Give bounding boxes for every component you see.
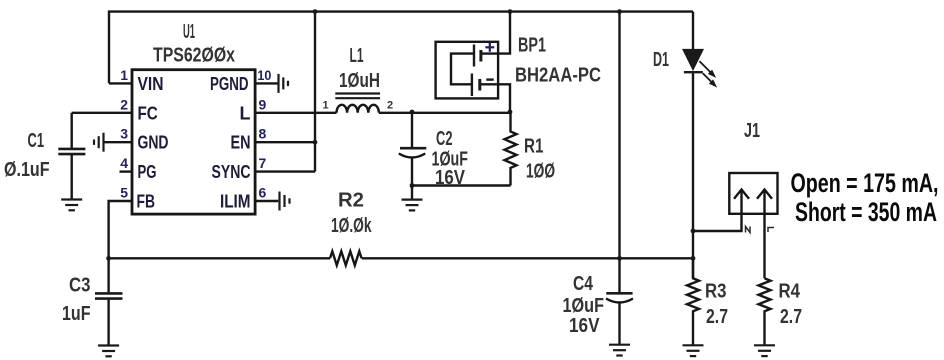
capacitor C3 <box>107 258 109 292</box>
node battery minus / R1 <box>508 110 513 115</box>
svg-text:2: 2 <box>120 96 128 112</box>
svg-text:J1: J1 <box>744 120 760 142</box>
wire C4 riser <box>618 12 620 259</box>
svg-text:C3: C3 <box>69 275 91 297</box>
ground sideways at pin 3 <box>94 133 104 152</box>
resistor R2 <box>330 251 362 265</box>
ground sideways at pin 10 <box>279 74 289 93</box>
svg-text:Short = 350 mA: Short = 350 mA <box>795 197 937 227</box>
J1 arrow pin 2 <box>763 190 765 279</box>
node rail-EN riser <box>313 9 318 14</box>
op-amp U1 body TPS6200x <box>132 70 255 214</box>
wire top rail VIN <box>109 12 693 84</box>
capacitor C1 <box>70 113 72 148</box>
pin 8 EN wire <box>255 141 315 143</box>
svg-text:1: 1 <box>323 100 329 112</box>
svg-text:BH2AA-PC: BH2AA-PC <box>515 65 601 87</box>
svg-text:U1: U1 <box>183 21 195 43</box>
svg-text:L1: L1 <box>350 45 364 67</box>
svg-text:6: 6 <box>259 185 267 201</box>
svg-text:4: 4 <box>120 155 128 171</box>
ground sideways at pin 6 <box>280 192 290 211</box>
wire bottom net right part <box>362 257 693 259</box>
svg-text:2.7: 2.7 <box>780 306 802 328</box>
svg-text:1uF: 1uF <box>62 303 91 325</box>
pin 2 FC <box>72 112 132 114</box>
svg-text:ILIM: ILIM <box>220 191 251 211</box>
pin 9 L wire <box>255 112 336 114</box>
svg-text:PGND: PGND <box>210 74 249 94</box>
node C2 bottom <box>410 183 415 188</box>
node FB-C3 <box>106 256 111 261</box>
svg-text:Open = 175 mA,: Open = 175 mA, <box>791 168 939 198</box>
battery cell 2 <box>471 74 473 97</box>
svg-text:3: 3 <box>120 126 128 142</box>
pin 4 PG stub <box>120 170 133 172</box>
J1 arrow pin 1 <box>740 190 742 214</box>
node R3 top <box>691 256 696 261</box>
battery BP1 box <box>436 42 499 99</box>
svg-text:VIN: VIN <box>138 74 164 94</box>
wire EN/SYNC riser <box>314 12 316 172</box>
svg-text:C1: C1 <box>28 130 45 152</box>
svg-text:10: 10 <box>257 67 271 83</box>
wire battery plus to rail <box>481 12 510 54</box>
wire battery minus down <box>480 84 510 113</box>
svg-text:R3: R3 <box>705 281 727 303</box>
node rail-C4 riser <box>617 9 622 14</box>
svg-text:PG: PG <box>138 162 157 182</box>
svg-text:D1: D1 <box>653 49 669 71</box>
svg-text:GND: GND <box>138 133 169 153</box>
J1 tiny pin labels <box>746 227 751 233</box>
svg-text:16V: 16V <box>569 315 600 337</box>
ground C2 <box>411 186 413 200</box>
LED arrows <box>699 61 715 86</box>
ground C1 <box>61 200 82 211</box>
ground C4 <box>609 345 630 356</box>
pin 6 ILIM stub <box>255 200 278 202</box>
svg-text:EN: EN <box>231 133 251 153</box>
svg-text:TPS62ØØx: TPS62ØØx <box>153 45 235 67</box>
wire bottom FB net <box>109 257 330 259</box>
svg-text:R4: R4 <box>779 281 801 303</box>
svg-text:1ØuH: 1ØuH <box>339 70 380 92</box>
capacitor C4 <box>606 292 632 295</box>
minus sign <box>486 78 493 80</box>
wire C2 to R1 bottom <box>412 184 511 186</box>
pin 10 PGND stub <box>255 82 278 84</box>
resistor R1 <box>505 113 517 186</box>
wire to J1 pin 1 <box>693 214 742 231</box>
svg-text:L: L <box>240 103 251 123</box>
svg-text:Ø.1uF: Ø.1uF <box>4 159 50 181</box>
svg-text:BP1: BP1 <box>518 35 546 57</box>
svg-text:1Ø.Øk: 1Ø.Øk <box>331 215 372 237</box>
plus sign <box>485 43 494 52</box>
svg-text:SYNC: SYNC <box>212 162 251 182</box>
wire pin1 to U1 <box>109 82 132 84</box>
ground C3 <box>98 346 119 357</box>
pin 3 GND wire <box>104 141 132 143</box>
svg-text:5: 5 <box>120 185 128 201</box>
node rail-battery <box>508 9 513 14</box>
svg-text:1ØuF: 1ØuF <box>563 295 605 317</box>
wire L1 to C2 node <box>379 112 510 114</box>
LED D1 <box>692 12 694 50</box>
node L1-C2 <box>410 110 415 115</box>
svg-text:C4: C4 <box>573 273 594 295</box>
svg-text:FC: FC <box>138 103 158 123</box>
pin 7 SYNC wire <box>255 170 315 172</box>
svg-text:1ØØ: 1ØØ <box>526 161 555 183</box>
battery cell 1 <box>473 45 475 67</box>
ground R3 <box>683 345 704 356</box>
resistor R4 <box>759 278 771 345</box>
svg-text:8: 8 <box>259 126 267 142</box>
svg-text:1: 1 <box>120 67 128 83</box>
svg-text:7: 7 <box>259 155 267 171</box>
svg-text:C2: C2 <box>436 128 453 150</box>
ground R4 <box>754 345 775 356</box>
node EN junction <box>313 140 318 145</box>
resistor R3 <box>687 258 699 345</box>
svg-text:R2: R2 <box>338 190 364 212</box>
node D1-J1 wire <box>691 229 696 234</box>
svg-text:2: 2 <box>387 100 393 112</box>
battery internal link <box>451 54 474 85</box>
svg-text:R1: R1 <box>524 136 544 158</box>
svg-text:2.7: 2.7 <box>706 306 728 328</box>
node C4 bottom rail <box>617 256 622 261</box>
svg-text:9: 9 <box>259 96 267 112</box>
capacitor C2 <box>411 112 413 148</box>
svg-text:FB: FB <box>137 192 156 212</box>
pin 5 FB wire <box>109 201 132 258</box>
